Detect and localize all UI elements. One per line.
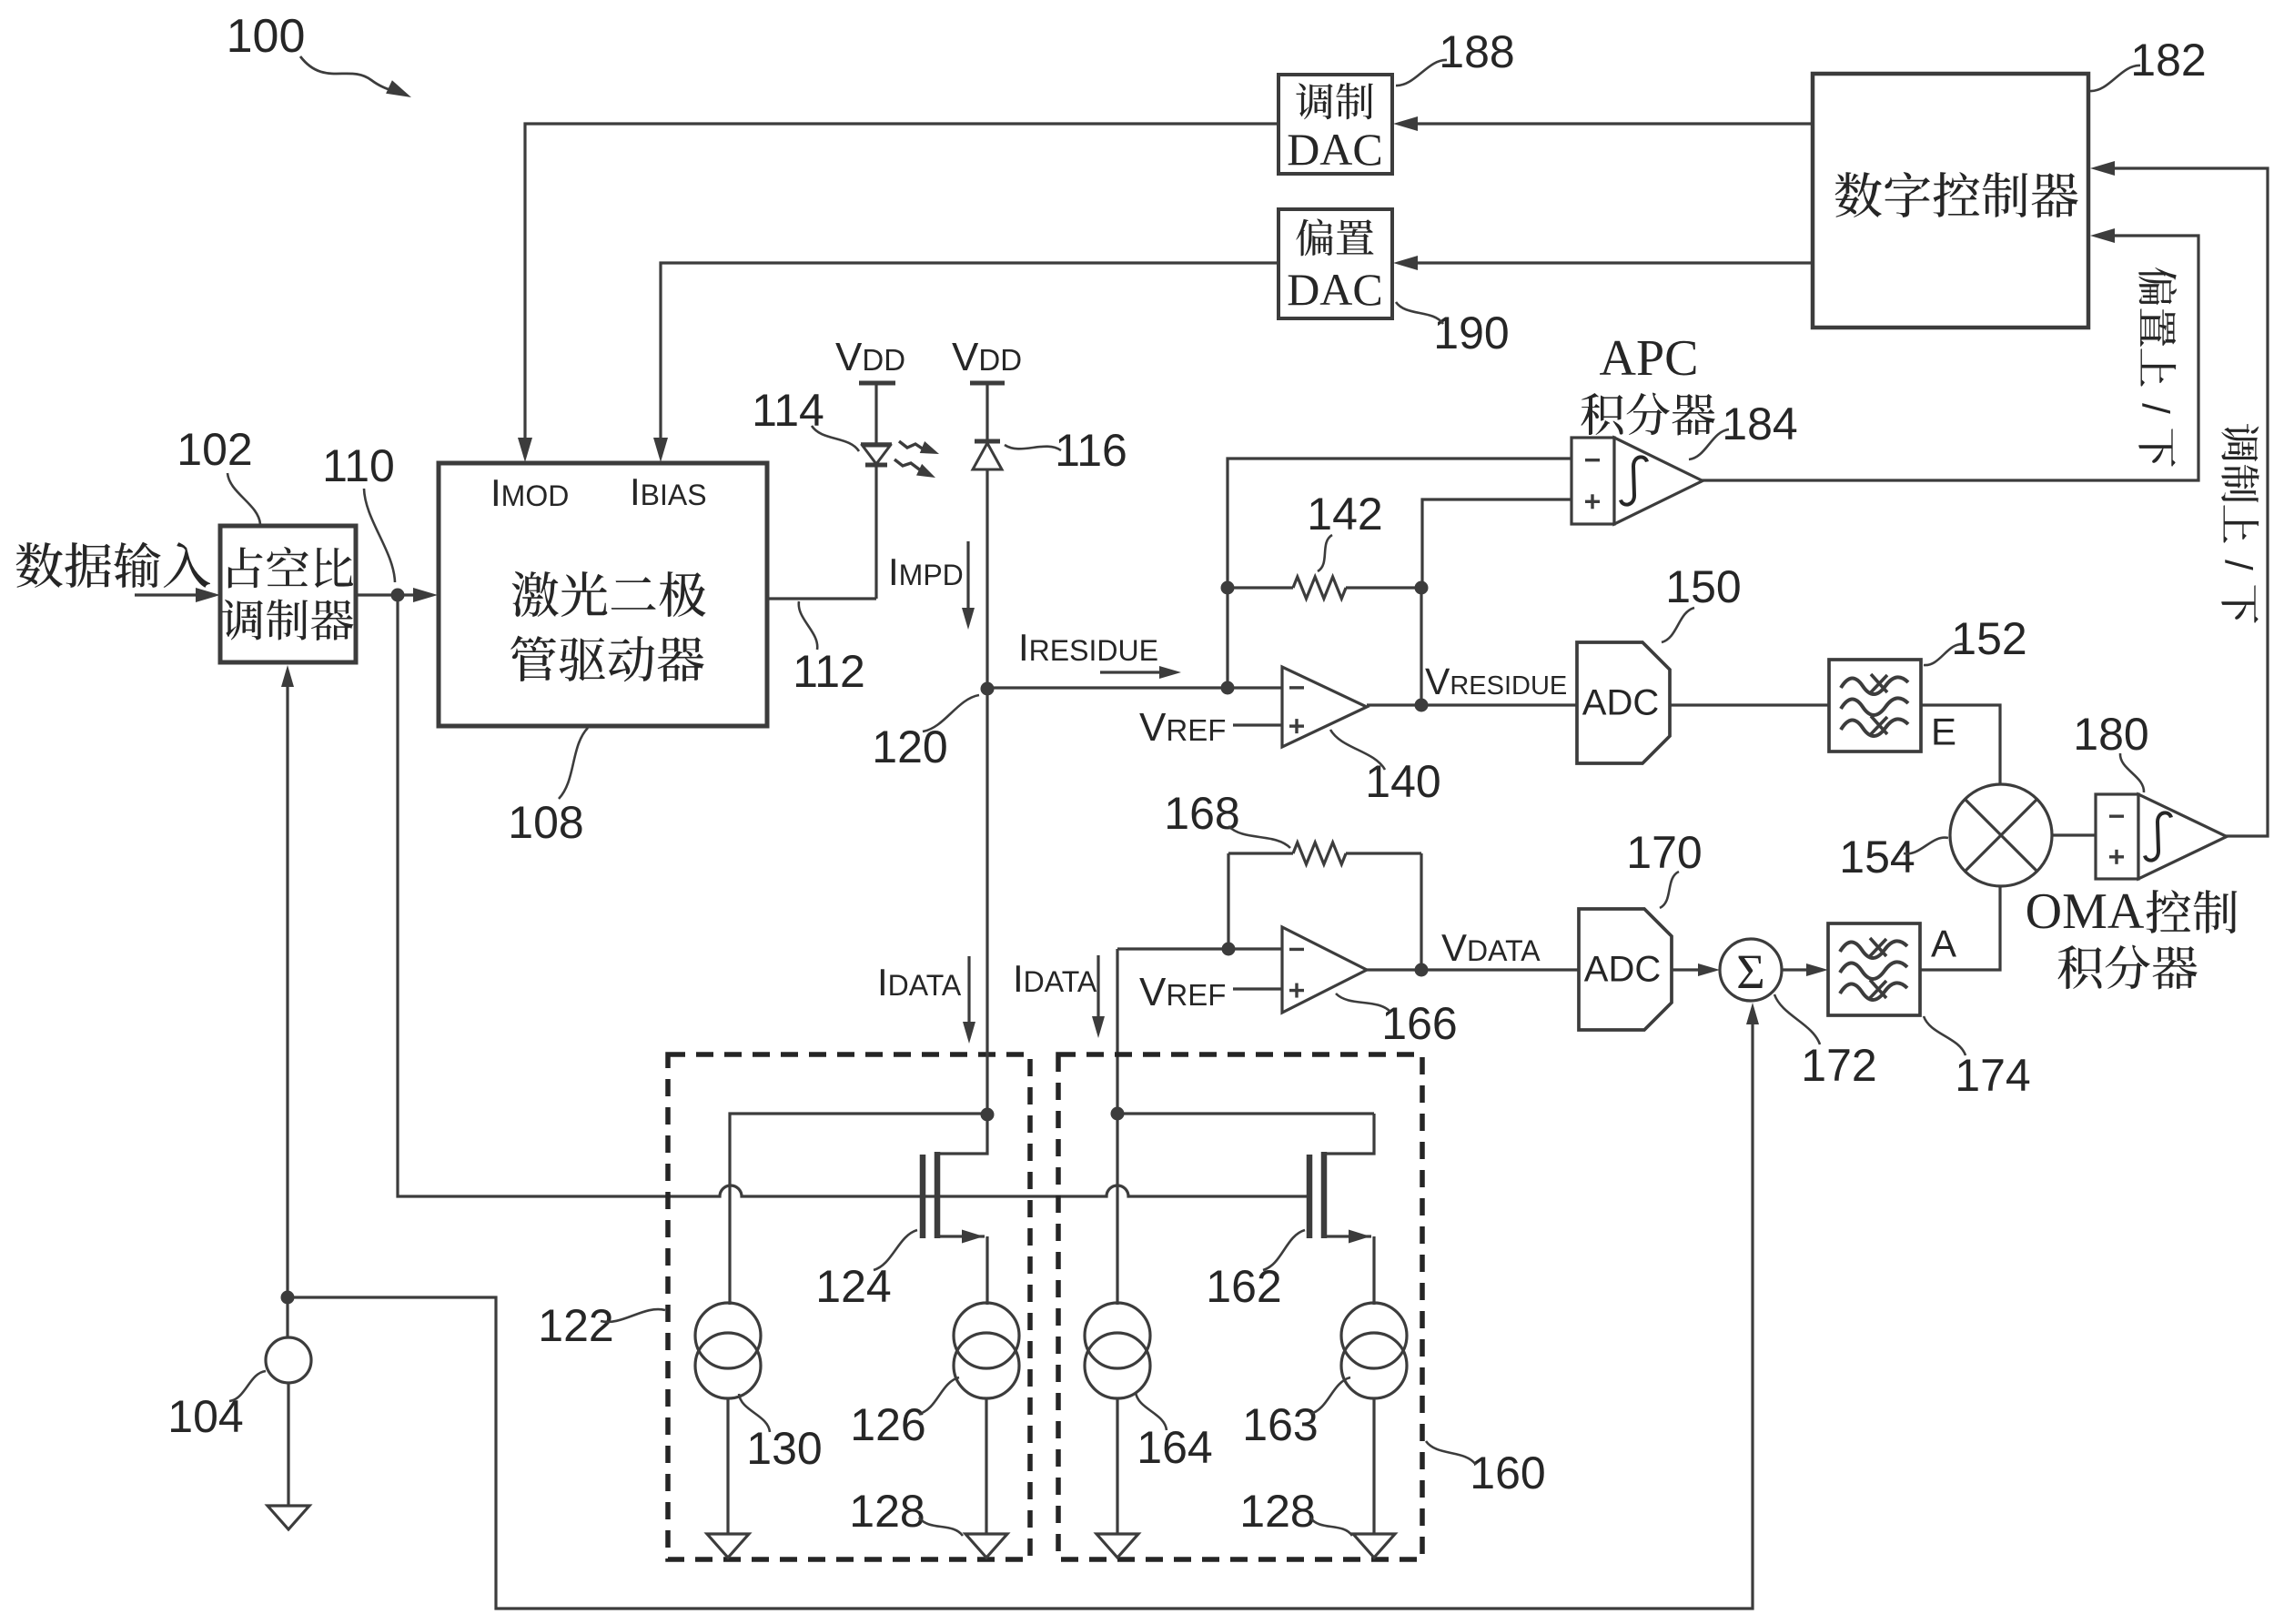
label 190	[1396, 302, 1510, 358]
IDATA label right	[1013, 955, 1105, 1038]
svg-text:164: 164	[1137, 1422, 1212, 1473]
node VDATA	[1415, 963, 1429, 977]
node at current source 104	[281, 1291, 295, 1305]
svg-text:VDD: VDD	[835, 335, 905, 379]
label 184	[1689, 398, 1798, 459]
svg-text:180: 180	[2073, 709, 2148, 760]
wire bottom feedback to summer	[288, 1003, 1759, 1609]
svg-text:120: 120	[872, 721, 947, 772]
svg-text:VRESIDUE: VRESIDUE	[1425, 661, 1567, 702]
laser diode driver 108	[439, 463, 767, 726]
wire filter 152 to mixer	[1921, 705, 2000, 784]
node 100 label with leader arrow	[227, 10, 411, 97]
ground under current source 104	[268, 1506, 309, 1529]
svg-text:APC: APC	[1600, 330, 1699, 387]
svg-text:E: E	[1931, 711, 1956, 753]
label 164	[1136, 1392, 1213, 1473]
label 108	[508, 728, 588, 848]
svg-text:142: 142	[1307, 489, 1382, 540]
label 116	[1005, 425, 1127, 476]
current source 104	[266, 1297, 311, 1506]
IMPD current label arrow	[888, 541, 975, 630]
APC integrator 184	[1572, 438, 1703, 524]
ground under 126	[965, 1534, 1007, 1558]
svg-text:104: 104	[167, 1391, 243, 1442]
svg-text:112: 112	[793, 646, 865, 697]
arrow ADC 170 to summer	[1672, 963, 1720, 976]
data input label	[16, 542, 210, 588]
wire mod DAC to driver IMOD input	[518, 124, 1278, 462]
mixer 154	[1950, 784, 2052, 886]
node at resistor 142 right	[1415, 581, 1429, 595]
VREF input to op-amp 140	[1139, 705, 1282, 750]
label 126	[850, 1377, 959, 1450]
label 114	[752, 385, 859, 451]
label 124	[815, 1230, 917, 1312]
label 120	[872, 695, 979, 772]
svg-text:130: 130	[746, 1423, 822, 1474]
wire controller to modulation DAC	[1393, 116, 1813, 131]
svg-text:124: 124	[815, 1261, 891, 1312]
svg-text:/: /	[2135, 403, 2178, 414]
label 112	[793, 601, 865, 697]
svg-text:VREF: VREF	[1139, 970, 1226, 1014]
arrow summer to filter 174	[1782, 963, 1828, 976]
summer 172	[1720, 939, 1782, 1001]
filter 152	[1829, 660, 1921, 751]
svg-text:IDATA: IDATA	[877, 961, 962, 1004]
bias up/down net label	[2135, 267, 2178, 467]
svg-text:162: 162	[1206, 1261, 1281, 1312]
svg-text:/: /	[2218, 560, 2260, 570]
svg-text:184: 184	[1722, 398, 1797, 449]
label 142	[1307, 489, 1382, 571]
label 160	[1426, 1441, 1546, 1498]
wire VRESIDUE node vertical	[1420, 588, 1422, 705]
resistor 142	[1228, 577, 1421, 599]
wire op-amp 140 output to ADC	[1367, 703, 1577, 706]
label 163	[1242, 1377, 1350, 1450]
svg-text:190: 190	[1433, 308, 1509, 358]
wire OMA integrator output to controller	[2090, 161, 2268, 836]
svg-text:OMA: OMA	[2026, 883, 2145, 940]
VREF input to op-amp 166	[1139, 970, 1282, 1014]
label 104	[167, 1371, 266, 1442]
node 110	[391, 589, 405, 602]
svg-text:188: 188	[1439, 26, 1514, 77]
label 168	[1164, 788, 1290, 848]
wire photodiode line into block 122	[985, 689, 988, 1115]
modulation DAC 188	[1278, 75, 1392, 175]
wire node to current source 130	[730, 1114, 987, 1305]
label 152	[1924, 613, 2027, 665]
ADC 170	[1579, 909, 1672, 1030]
svg-text:VDD: VDD	[952, 335, 1022, 379]
svg-text:168: 168	[1164, 788, 1239, 839]
VDD supply for laser diode	[835, 335, 905, 443]
svg-text:108: 108	[508, 797, 583, 848]
current source 126	[954, 1303, 1019, 1534]
modulation up/down net label	[2218, 424, 2260, 623]
wire mixer to OMA integrator	[2052, 833, 2096, 836]
IRESIDUE current label arrow	[1018, 626, 1181, 679]
wire photodiode node down to op-amp 166 input	[1117, 947, 1282, 950]
label 154	[1839, 832, 1948, 883]
OMA integrator label	[2026, 883, 2238, 989]
label 188	[1396, 26, 1515, 86]
current source 163	[1341, 1303, 1407, 1534]
svg-text:IMPD: IMPD	[888, 550, 964, 593]
label 122	[538, 1300, 665, 1351]
label 162	[1206, 1230, 1305, 1312]
wire APC integrator output to controller	[1701, 228, 2198, 480]
wire duty cycle modulator bottom feedback input	[281, 665, 294, 1297]
VDD supply for photodiode	[952, 335, 1022, 440]
svg-text:Σ: Σ	[1736, 944, 1764, 999]
dashed block 160	[1058, 1054, 1422, 1559]
svg-text:VREF: VREF	[1139, 705, 1226, 750]
wire node down to current source 164	[1116, 1114, 1118, 1305]
label 140	[1330, 730, 1441, 807]
label 180	[2073, 709, 2148, 792]
label 110	[322, 440, 395, 582]
label 170	[1626, 827, 1702, 908]
APC integrator label	[1582, 330, 1716, 436]
label 102	[177, 424, 260, 524]
svg-text:152: 152	[1951, 613, 2026, 664]
photodiode 116	[973, 441, 1002, 689]
svg-text:DAC: DAC	[1287, 264, 1383, 315]
node above MOSFET 124	[981, 1108, 995, 1122]
svg-text:ADC: ADC	[1584, 950, 1661, 990]
svg-text:154: 154	[1839, 832, 1915, 883]
svg-text:ADC: ADC	[1582, 683, 1659, 723]
ground under 130	[707, 1534, 749, 1558]
label 128 left	[849, 1486, 963, 1537]
wire gate line from node 110 to MOSFET gates	[398, 595, 1309, 1196]
VRESIDUE label	[1425, 661, 1567, 702]
dashed block 122	[668, 1054, 1030, 1559]
wire feedback to APC minus input	[1228, 459, 1572, 688]
filter 174	[1828, 923, 1920, 1015]
IDATA label left	[877, 956, 975, 1044]
wire modulator to driver	[356, 588, 438, 602]
svg-text:122: 122	[538, 1300, 613, 1351]
duty cycle modulator 102	[220, 526, 356, 662]
svg-text:128: 128	[1239, 1486, 1315, 1537]
MOSFET 124	[923, 1114, 987, 1305]
wire vertical x1228	[1116, 949, 1118, 1114]
ground under 164	[1097, 1534, 1138, 1558]
node at resistor 142 left	[1221, 581, 1235, 595]
wire controller to bias DAC	[1393, 256, 1813, 270]
node VRESIDUE	[1415, 699, 1429, 712]
wire APC plus input	[1422, 499, 1572, 588]
op-amp 166	[1282, 927, 1367, 1013]
wire ADC 150 to filter 152	[1670, 703, 1829, 706]
svg-text:A: A	[1931, 923, 1956, 965]
wire node to MOSFET 162 drain	[1117, 1112, 1374, 1115]
digital controller 182	[1813, 74, 2088, 328]
MOSFET 162	[1309, 1114, 1374, 1305]
label 130	[739, 1394, 823, 1474]
resistor 168 feedback	[1228, 842, 1421, 970]
node at op-amp 166 minus	[1222, 943, 1236, 956]
svg-text:160: 160	[1470, 1447, 1545, 1498]
svg-text:174: 174	[1955, 1050, 2030, 1101]
label 150	[1662, 561, 1742, 642]
label 128 right	[1239, 1486, 1352, 1537]
svg-text:IDATA: IDATA	[1013, 957, 1097, 1000]
wire op-amp 166 output to ADC 170	[1367, 968, 1579, 971]
svg-text:166: 166	[1381, 998, 1457, 1049]
svg-text:DAC: DAC	[1287, 124, 1383, 175]
current source 164	[1085, 1303, 1150, 1534]
svg-text:140: 140	[1365, 756, 1440, 807]
label 174	[1924, 1016, 2031, 1101]
label 172	[1774, 994, 1877, 1091]
svg-text:172: 172	[1801, 1040, 1876, 1091]
svg-text:128: 128	[849, 1486, 925, 1537]
ground under 163	[1353, 1534, 1395, 1558]
svg-text:170: 170	[1626, 827, 1702, 878]
laser diode 114	[861, 444, 892, 599]
wire filter 174 to mixer	[1920, 886, 2000, 970]
op-amp 140	[1282, 667, 1367, 747]
current source 130	[695, 1303, 761, 1534]
svg-text:126: 126	[850, 1399, 925, 1450]
wire data input arrow	[135, 588, 220, 602]
bias DAC 190	[1278, 209, 1392, 318]
svg-text:VDATA: VDATA	[1441, 926, 1541, 969]
svg-text:150: 150	[1665, 561, 1741, 612]
OMA control integrator 180	[2096, 794, 2227, 879]
VDATA label	[1441, 926, 1541, 969]
node 120	[981, 682, 995, 696]
svg-text:100: 100	[227, 10, 306, 63]
ADC 150	[1577, 642, 1670, 763]
wire IRESIDUE to op-amp	[987, 686, 1282, 689]
light emission arrows	[894, 441, 939, 478]
svg-text:IRESIDUE: IRESIDUE	[1018, 626, 1158, 669]
wire driver output to laser diode	[767, 597, 876, 600]
node at op-amp 140 minus input	[1221, 681, 1235, 695]
svg-text:182: 182	[2130, 35, 2206, 86]
wire bias DAC to driver IBIAS input	[653, 263, 1278, 462]
svg-text:116: 116	[1055, 425, 1127, 476]
label 182	[2090, 35, 2207, 91]
node above MOSFET 162	[1111, 1107, 1125, 1121]
svg-text:163: 163	[1242, 1399, 1318, 1450]
svg-text:102: 102	[177, 424, 252, 475]
svg-text:110: 110	[322, 440, 395, 491]
label 166	[1336, 994, 1458, 1049]
